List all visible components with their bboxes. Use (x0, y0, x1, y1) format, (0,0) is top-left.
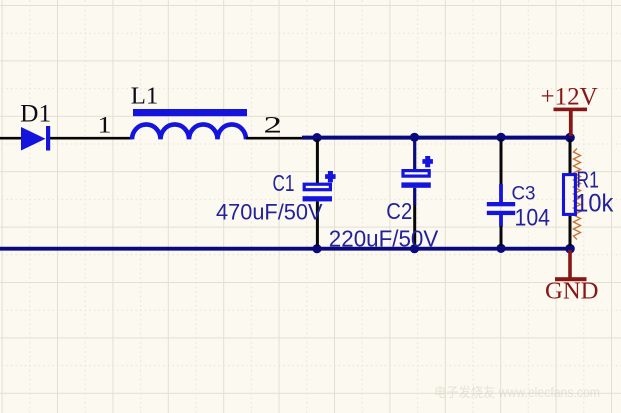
svg-text:10k: 10k (575, 190, 613, 218)
power port +12V (554, 108, 588, 136)
wire (50, 137, 132, 140)
svg-text:2: 2 (264, 112, 283, 137)
power port GND (555, 250, 587, 281)
inductor L1 (132, 109, 247, 139)
svg-text:220uF/50V: 220uF/50V (329, 226, 439, 252)
wire bottom rail (0, 247, 570, 251)
node junction top C2 (410, 133, 419, 142)
svg-text:L1: L1 (131, 82, 159, 109)
svg-text:D1: D1 (20, 100, 51, 127)
wire (246, 137, 305, 140)
svg-text:470uF/50V: 470uF/50V (216, 199, 323, 224)
resistor R1 (564, 139, 581, 246)
capacitor C3 (487, 139, 515, 246)
node junction top R1 (565, 133, 575, 143)
svg-text:1: 1 (98, 112, 112, 137)
watermark (434, 385, 600, 400)
svg-text:电子发烧友 www.elecfans.com: 电子发烧友 www.elecfans.com (434, 385, 600, 400)
node junction bottom C2 (410, 244, 419, 253)
node junction top C1 (312, 133, 321, 142)
svg-text:C2: C2 (386, 198, 412, 224)
capacitor C2 (401, 139, 433, 246)
svg-text:104: 104 (515, 205, 551, 232)
node junction top C3 (496, 133, 505, 142)
node junction bottom C1 (312, 244, 321, 253)
svg-text:R1: R1 (576, 166, 599, 192)
capacitor C1 (303, 139, 336, 246)
wire top rail (302, 136, 570, 140)
diode D1 (21, 126, 50, 151)
node junction bottom C3 (496, 244, 505, 253)
svg-text:+12V: +12V (541, 83, 598, 110)
node junction bottom R1 (565, 244, 575, 254)
svg-text:C3: C3 (512, 183, 536, 204)
svg-text:C1: C1 (273, 170, 295, 196)
wire (0, 137, 22, 140)
svg-text:GND: GND (545, 279, 599, 305)
